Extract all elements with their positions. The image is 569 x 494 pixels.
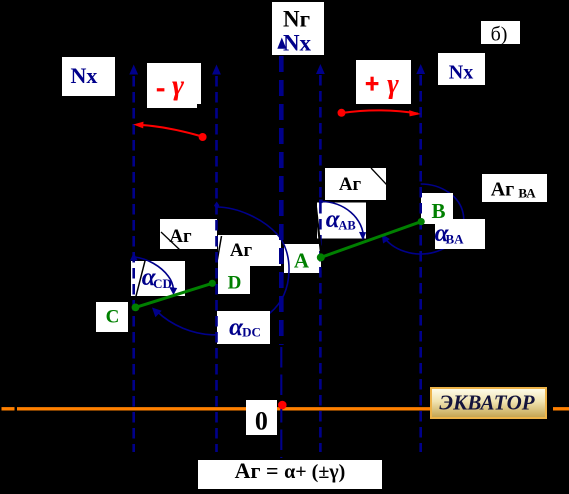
svg-text:Nx: Nx: [449, 62, 473, 84]
label box alpha-CD: [131, 261, 185, 296]
point C: [132, 304, 140, 312]
grid meridian at B (dashed): [419, 75, 422, 452]
svg-text:Аг: Аг: [230, 240, 253, 261]
end arrowhead of alpha-AB arc: [359, 232, 366, 240]
svg-text:DC: DC: [242, 325, 261, 340]
arrowhead of A meridian: [316, 64, 325, 74]
central geographic meridian (thick dashed): [279, 56, 284, 345]
label box Ag (near A): [325, 168, 386, 200]
svg-text:Nx: Nx: [71, 63, 98, 88]
point A: [317, 253, 325, 261]
svg-text:C: C: [106, 307, 120, 328]
thin geographic meridian at D: [214, 236, 222, 279]
angle arc alpha-DC around D (big sweep): [157, 207, 290, 335]
green line C to D: [136, 283, 213, 307]
equator line main segment: [17, 407, 546, 410]
label box Nx (right): [438, 53, 485, 85]
angle arc alpha-AB at A: [321, 202, 364, 239]
start diamond of alpha-DC arc on D meridian: [214, 202, 219, 210]
arrowhead of D meridian: [212, 65, 221, 75]
start arrowhead of alpha-CD arc: [130, 253, 138, 261]
red dot at -gamma arrow origin: [199, 133, 207, 141]
label box alpha-DC: [217, 311, 270, 344]
svg-text:Аг = α+ (±γ): Аг = α+ (±γ): [235, 458, 346, 483]
label box Ag-BA: [482, 174, 547, 202]
label box Ng/Nx (top center): [272, 2, 324, 55]
label box +gamma: [356, 60, 411, 104]
label box B: [421, 193, 453, 224]
label box b): [481, 21, 520, 44]
label box Ag (near C): [160, 219, 217, 249]
grid meridian at C (dashed): [132, 76, 135, 452]
svg-text:γ: γ: [172, 70, 185, 102]
svg-text:AB: AB: [338, 219, 355, 233]
svg-text:Аг: Аг: [491, 179, 515, 201]
label box D: [218, 266, 250, 294]
label box A: [284, 244, 321, 273]
equator label box: [430, 387, 547, 419]
arrowhead of alpha-BA arc: [382, 234, 390, 244]
svg-text:BA: BA: [445, 232, 464, 247]
label box Nx (left): [62, 57, 115, 96]
red arrow +gamma (curved, pointing right): [342, 110, 419, 113]
formula box Ag = a + (+-gamma): [198, 460, 382, 489]
svg-text:Nг: Nг: [283, 7, 310, 32]
red dot at origin 0 on equator: [278, 401, 287, 410]
grid meridian at D (dashed): [215, 76, 218, 452]
red dot at +gamma arrow origin: [338, 109, 346, 117]
svg-text:γ: γ: [387, 69, 399, 100]
point D: [209, 280, 216, 287]
leader line in Ag(A) box: [371, 168, 387, 185]
svg-text:ЭКВАТОР: ЭКВАТОР: [439, 391, 534, 415]
start square of alpha-AB arc: [319, 200, 323, 204]
label box alpha-BA: [435, 219, 485, 249]
svg-text:Аг: Аг: [339, 174, 362, 195]
leader line in Ag(C) box: [161, 232, 180, 250]
label box 0 (origin on equator): [246, 400, 277, 435]
svg-text:D: D: [228, 273, 242, 294]
svg-text:Nх: Nх: [283, 31, 312, 56]
svg-text:ВА: ВА: [518, 186, 536, 201]
central meridian thin continuation below: [280, 347, 282, 458]
arrowhead of alpha-DC arc pointing toward C: [152, 308, 162, 318]
svg-text:0: 0: [255, 407, 268, 436]
label box alpha-AB: [317, 203, 366, 239]
angle arc alpha-BA around B (big sweep): [383, 184, 464, 254]
equator line left segment: [2, 407, 15, 410]
red arrow -gamma (curved, pointing left): [137, 125, 202, 137]
arrowhead of B meridian: [416, 64, 425, 74]
label box -gamma: [147, 63, 201, 108]
grid meridian at A (dashed): [319, 75, 322, 452]
equator line right dash: [553, 407, 569, 410]
point B: [418, 218, 425, 225]
green line A to B: [321, 222, 421, 258]
thin geographic meridian at C: [134, 257, 146, 304]
svg-text:A: A: [294, 249, 310, 273]
arrowhead of C meridian: [129, 65, 138, 75]
svg-text:б): б): [491, 24, 508, 46]
thin geographic meridian at A: [316, 203, 324, 271]
angle arc alpha-CD at C: [135, 257, 174, 289]
end arrowhead of alpha-CD arc: [169, 287, 177, 295]
label box C: [96, 302, 128, 332]
label box Ag (near D): [218, 235, 281, 266]
arrowhead of geographic meridian inside Ng box: [277, 38, 286, 49]
